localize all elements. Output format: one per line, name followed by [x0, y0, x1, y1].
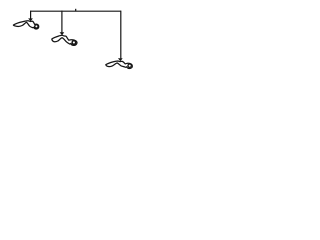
wire drop to node 1: [30, 11, 32, 19]
arrowhead into node 3: [118, 58, 123, 61]
wire drop to node 2: [61, 11, 63, 33]
blob node 3: [106, 61, 133, 69]
blob node 1: [13, 21, 38, 29]
blob node 2: [52, 35, 77, 45]
top horizontal connector line: [31, 10, 121, 12]
arrowhead into node 1: [28, 18, 33, 21]
branch tick (stub to parent): [75, 9, 77, 12]
arrowhead into node 2: [60, 32, 65, 35]
wire drop to node 3: [120, 11, 122, 59]
